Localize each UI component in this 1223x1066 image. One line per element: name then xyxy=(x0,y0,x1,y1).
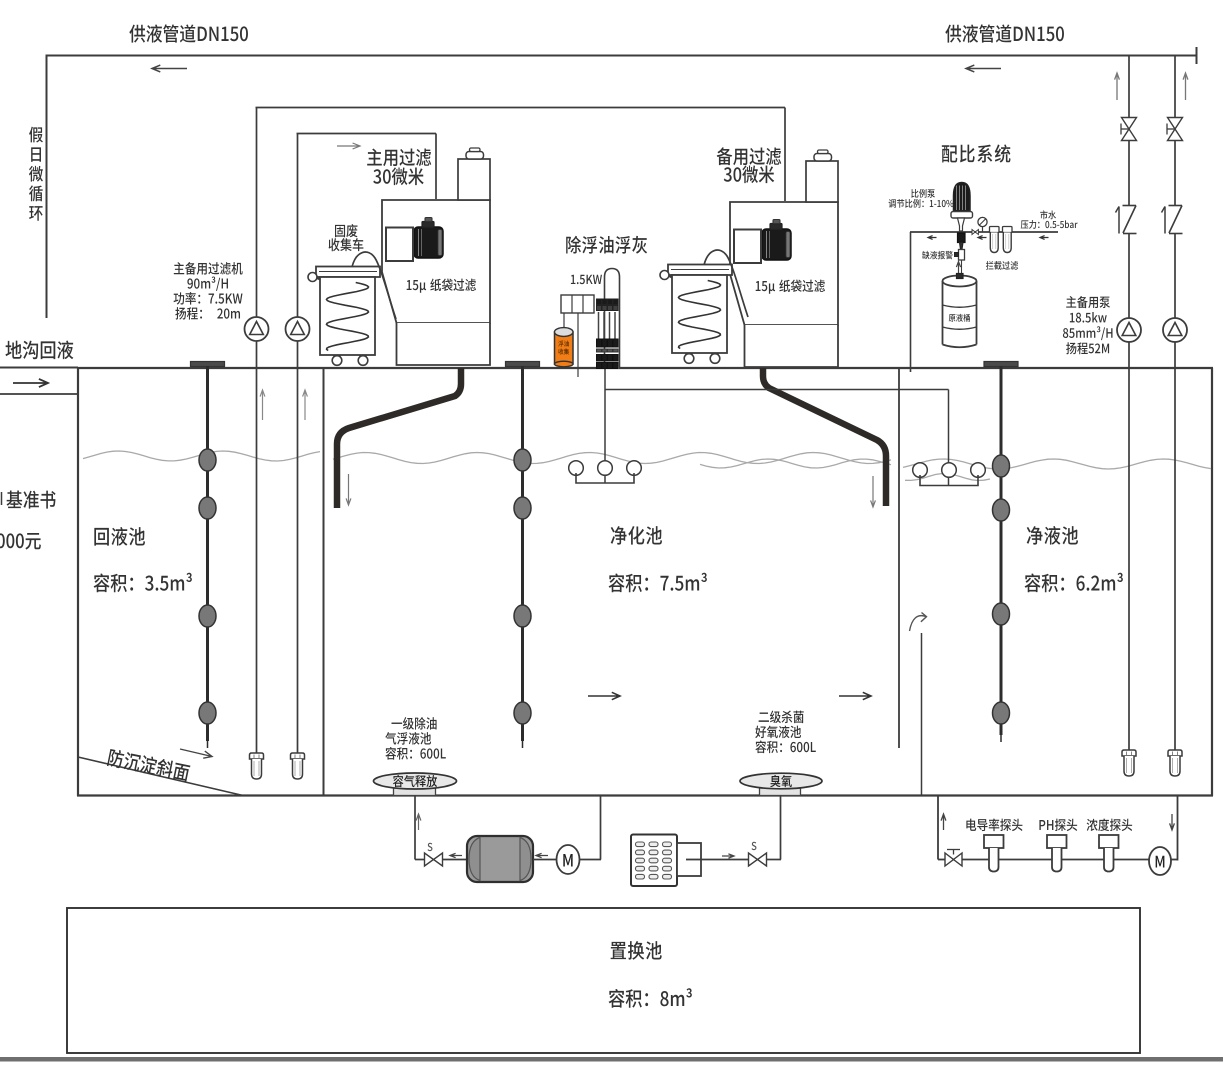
dosing pump injector dark xyxy=(958,233,966,243)
filter unit motor top cap xyxy=(422,222,434,228)
wire riser x=1129 pump down into tank xyxy=(1128,342,1130,750)
skimmer column rounded top xyxy=(605,269,620,370)
water surface wave center tank overlap xyxy=(700,459,891,468)
sensor loop down arrow xyxy=(1170,814,1175,830)
slope direction arrow xyxy=(180,749,212,758)
label low liquid alarm xyxy=(922,251,953,259)
label main backup pump specs xyxy=(1066,296,1110,308)
wire left return riser xyxy=(46,55,48,318)
wire dosing drop line into tank xyxy=(910,232,912,372)
label second stage sterilize aerobic pool xyxy=(759,711,804,724)
wire inside side box xyxy=(686,859,701,861)
tank bottom line xyxy=(77,794,1213,796)
filter unit lower body xyxy=(745,325,839,367)
pressure gauge xyxy=(978,217,987,226)
solenoid valve S at (433.5,859.5) xyxy=(425,853,434,866)
label proportional pump xyxy=(911,189,935,198)
flow arrow east to valve xyxy=(722,854,734,858)
dosing pump cone xyxy=(954,183,971,212)
wire riser x=1175 valve to check symbol xyxy=(1174,141,1176,206)
label clean tank xyxy=(1027,526,1078,545)
water surface wave right tank xyxy=(903,459,1211,469)
partition wall 1 (return tank / purification tank) xyxy=(323,368,325,795)
up arrow above drum xyxy=(956,262,960,274)
suction up arrow 1 in return tank xyxy=(260,390,265,420)
wire riser x=1129 check to pump xyxy=(1128,234,1130,319)
wire riser x=1129 valve to check symbol xyxy=(1128,141,1130,206)
float ball at (207.5,713) xyxy=(199,702,216,724)
label S right valve xyxy=(752,842,757,850)
skimmer float circle (634,468) xyxy=(627,461,642,476)
foot strainer at (1129,750) xyxy=(1122,750,1136,756)
label cut text 000 yuan xyxy=(0,533,41,550)
label PH probe xyxy=(1039,819,1077,831)
anti-sedimentation slope line xyxy=(78,757,243,796)
drain down arrow right xyxy=(871,476,876,507)
label return tank xyxy=(94,527,145,546)
label conductivity probe xyxy=(966,819,1022,832)
ozone diffuser ellipse xyxy=(760,788,801,796)
wire alarm to drum xyxy=(961,260,963,274)
filter unit main body xyxy=(382,200,490,323)
label 15u paper bag filter main xyxy=(407,279,476,293)
float ball at (1001,510) xyxy=(993,499,1010,521)
waste cart wheels xyxy=(333,355,335,359)
wire city water pipe xyxy=(910,231,1058,233)
label first stage oil removal air float pool xyxy=(391,717,436,730)
flow arrow left on supply pipe (west) xyxy=(152,65,187,72)
skimmer left box 3 cells xyxy=(561,295,594,313)
skimmer rods and blocks xyxy=(598,312,600,341)
wire motor to riser xyxy=(580,859,602,861)
label dosing system title xyxy=(942,144,1011,162)
skimmer float circle (576,468) xyxy=(569,461,584,476)
filter unit motor xyxy=(762,229,791,260)
check symbol 1Z at x=1129 xyxy=(1123,205,1137,207)
flow arrow in purification tank left xyxy=(588,692,620,699)
pump symbol at (256.5,329) xyxy=(245,317,269,341)
wire pump1 suction down into tank xyxy=(256,341,258,753)
filter unit main body xyxy=(730,202,838,325)
label interception filter xyxy=(986,261,1018,270)
filter unit motor top cap xyxy=(770,224,782,230)
wire riser x=1175 pump down into tank xyxy=(1174,342,1176,750)
wire drop to backup filter unit top xyxy=(784,108,786,202)
filter unit motor xyxy=(414,227,443,258)
foot strainer at (1175,750) xyxy=(1168,750,1182,756)
wire skimmer down to clean tank float xyxy=(948,390,950,486)
air dissolving vessel gray xyxy=(467,836,533,882)
label clean tank volume xyxy=(1025,573,1123,593)
label ozone xyxy=(770,775,792,787)
float ball at (1001,713) xyxy=(993,702,1010,724)
wire skimmer box to bucket xyxy=(563,313,565,327)
float level switch at x=522.5 mounting bar xyxy=(506,362,540,367)
float level switch at x=1001 mounting bar xyxy=(984,362,1018,367)
dosing pump neck funnel xyxy=(958,218,965,231)
label box arrow main filter xyxy=(337,143,360,149)
float level switch at x=207.5 mounting bar xyxy=(191,362,225,367)
main filter drain pipe thick xyxy=(337,368,461,508)
low liquid alarm fitting xyxy=(959,250,965,261)
wire valve to air vessel xyxy=(443,859,468,861)
wire valve to ozone riser xyxy=(767,859,782,861)
air release ellipse xyxy=(394,788,436,796)
filter unit side white box xyxy=(734,230,761,264)
node supply pipe right end cap xyxy=(1196,47,1198,64)
float ball at (522.5,460) xyxy=(514,449,531,471)
foot strainer at (297.5,753) xyxy=(291,753,305,759)
water surface wave center tank xyxy=(333,453,891,464)
waste cart spring coil xyxy=(679,281,721,349)
probe symbol at x=1099 xyxy=(1099,835,1119,848)
skimmer float circle (920,470) xyxy=(913,463,928,478)
filter unit column cap xyxy=(466,152,484,160)
skimmer float bracket xyxy=(576,473,634,483)
inlet channel 地沟回液 box xyxy=(0,367,78,369)
shutoff valve bowtie at (1129,129) xyxy=(1122,118,1137,130)
probe symbol at x=984 xyxy=(984,835,1004,848)
float ball at (207.5,460) xyxy=(199,449,216,471)
hose main filter to cart xyxy=(352,252,396,319)
hose backup filter to cart xyxy=(704,250,748,317)
sensor loop up arrow xyxy=(941,814,946,830)
waste cart handle xyxy=(317,278,330,284)
label floating oil collect tiny xyxy=(558,341,569,347)
wire riser x=1175 check to pump xyxy=(1174,234,1176,319)
wire riser x=1175 segment pipe to valve xyxy=(1174,55,1176,118)
up arrow beside riser x=1175 xyxy=(1183,73,1188,100)
DAF up arrow xyxy=(416,814,421,830)
float ball at (1001,614) xyxy=(993,603,1010,625)
wire skimmer box into tank xyxy=(577,313,579,377)
solenoid valve S at (757.5,859.5) xyxy=(749,853,758,866)
label supply pipe DN150 left xyxy=(129,24,248,42)
wire side box to S valve 2 xyxy=(701,859,749,861)
wire overflow down pipe to sensor loop xyxy=(921,633,923,795)
float ball at (522.5,616) xyxy=(514,605,531,627)
label cut text benchmark book xyxy=(7,491,56,509)
waste cart body xyxy=(320,277,375,355)
curved overflow arrow at partition xyxy=(910,616,927,631)
wire pump2 suction down into tank xyxy=(297,341,299,753)
backup filter drain pipe thick xyxy=(763,368,886,506)
label air release xyxy=(393,775,437,787)
label raw liquid drum xyxy=(949,314,970,322)
waste cart lid xyxy=(668,265,732,276)
waste cart spring coil xyxy=(327,283,369,351)
float ball at (207.5,616) xyxy=(199,605,216,627)
label 15u paper bag filter backup xyxy=(756,280,825,294)
wire top loop horizontal to backup filter xyxy=(256,107,786,109)
pump symbol at (297.5,329) xyxy=(286,317,310,341)
label replacement tank volume xyxy=(609,988,692,1008)
tank left wall xyxy=(77,367,79,796)
flow arrow in purification tank right xyxy=(839,692,871,699)
filter unit side white box xyxy=(386,228,413,262)
wire skimmer down into purification tank xyxy=(604,369,606,483)
foot strainer at (256.5,753) xyxy=(250,753,264,759)
wire skimmer horizontal to clean tank xyxy=(605,389,949,391)
label purification tank volume xyxy=(609,573,707,593)
flow arrow right section supply pipe (west) xyxy=(966,65,1001,72)
label S left valve xyxy=(428,843,433,851)
wire riser x=1129 segment pipe to valve xyxy=(1128,55,1130,118)
wire M to right vertical xyxy=(1171,859,1178,861)
label supply pipe DN150 right xyxy=(945,24,1064,42)
float ball at (1001,466) xyxy=(993,455,1010,477)
up arrow beside riser x=1129 xyxy=(1115,73,1120,100)
wire supply pipe DN150 top horizontal xyxy=(46,55,1198,57)
wire sensor loop left vertical xyxy=(937,796,939,860)
waste cart wheels xyxy=(685,353,687,357)
dosing pump collar xyxy=(951,212,973,219)
label main filter 30 micron xyxy=(367,148,431,166)
water surface wave left tank xyxy=(83,451,320,461)
skimmer float circle (949,470) xyxy=(942,463,957,478)
float ball at (522.5,508) xyxy=(514,497,531,519)
label ditch return liquid xyxy=(5,341,73,360)
wire sensor manifold xyxy=(962,859,1149,861)
float level switch at x=1001 cable xyxy=(1000,366,1003,735)
flow arrow west into vessel 2 xyxy=(536,853,548,857)
manual valve with T handle xyxy=(945,853,954,866)
label purification tank xyxy=(611,526,662,545)
wire riser pump2 to label box xyxy=(297,134,299,318)
label anti-sedimentation slope rotated xyxy=(107,748,191,782)
floating oil bucket orange xyxy=(555,332,574,364)
pump symbol at (1129,330) xyxy=(1117,318,1141,342)
float ball at (207.5,508) xyxy=(199,497,216,519)
skimmer float bracket xyxy=(920,475,978,486)
filter unit top column xyxy=(458,159,490,200)
label oil and ash skimmer xyxy=(566,236,647,254)
float level switch at x=522.5 cable xyxy=(521,366,524,741)
filter cartridge at x=1002.5 xyxy=(1003,227,1013,233)
diffuser side box xyxy=(677,843,701,876)
bottom gray bar xyxy=(0,1057,1223,1062)
check symbol 1Z at x=1175 xyxy=(1169,205,1183,207)
waste cart lid xyxy=(316,267,380,278)
filter unit top column xyxy=(806,161,838,202)
label backup filter 30 micron xyxy=(717,147,781,165)
partition wall 2 (purification / clean tank) partial height xyxy=(898,368,900,748)
label 1.5KW xyxy=(571,275,602,284)
skimmer float circle (978,470) xyxy=(971,463,986,478)
tank top line xyxy=(77,367,1213,369)
label holiday micro-circulation vertical xyxy=(29,127,43,143)
inlet flow arrow east xyxy=(13,379,48,387)
label main/backup filter pump specs xyxy=(174,262,243,275)
perforated diffuser box xyxy=(631,835,677,887)
wire vessel to motor M xyxy=(533,859,557,861)
wire ozone riser up to tank bottom xyxy=(780,796,782,860)
flow arrows west on dosing pipe xyxy=(928,236,937,240)
waste cart body xyxy=(672,275,727,353)
float ball at (522.5,713) xyxy=(514,702,531,724)
wire sensor loop bottom horizontal xyxy=(938,859,945,861)
wire to S valve xyxy=(415,859,425,861)
filter unit column cap xyxy=(814,154,832,162)
waste cart handle xyxy=(669,276,682,282)
motor M circle xyxy=(557,845,580,874)
filter unit lower body xyxy=(397,323,491,365)
check valve tiny on pipe xyxy=(972,230,975,235)
wire sensor loop right vertical xyxy=(1177,796,1179,861)
label solid waste cart xyxy=(335,224,357,237)
motor M sensor loop xyxy=(1149,847,1171,875)
wire riser up to tank bottom xyxy=(600,796,602,860)
float level switch at x=207.5 cable xyxy=(206,366,209,741)
water surface wave right tank extra squiggle xyxy=(905,474,990,481)
label replacement tank xyxy=(611,941,662,960)
flow arrow west into vessel xyxy=(450,853,462,857)
raw liquid drum xyxy=(943,281,977,345)
pump symbol at (1175,330) xyxy=(1163,318,1187,342)
drain down arrow left xyxy=(346,474,351,505)
label city water xyxy=(1040,210,1056,219)
probe symbol at x=1047 xyxy=(1047,835,1067,848)
wire label box top horizontal xyxy=(297,133,437,135)
tank right wall xyxy=(1211,368,1213,796)
skimmer float circle (605,468) xyxy=(598,461,613,476)
shutoff valve bowtie at (1175,129) xyxy=(1168,118,1183,130)
filter cartridge at x=989.5 xyxy=(990,227,1000,233)
wire drop to main filter unit top xyxy=(435,134,437,200)
replacement tank box xyxy=(67,908,1140,1053)
wire riser pump1 to top loop xyxy=(256,108,258,318)
wire DAF riser below air release xyxy=(414,796,416,860)
suction up arrow 2 in return tank xyxy=(303,390,308,420)
label return tank volume xyxy=(94,573,192,593)
label concentration probe xyxy=(1087,819,1132,832)
